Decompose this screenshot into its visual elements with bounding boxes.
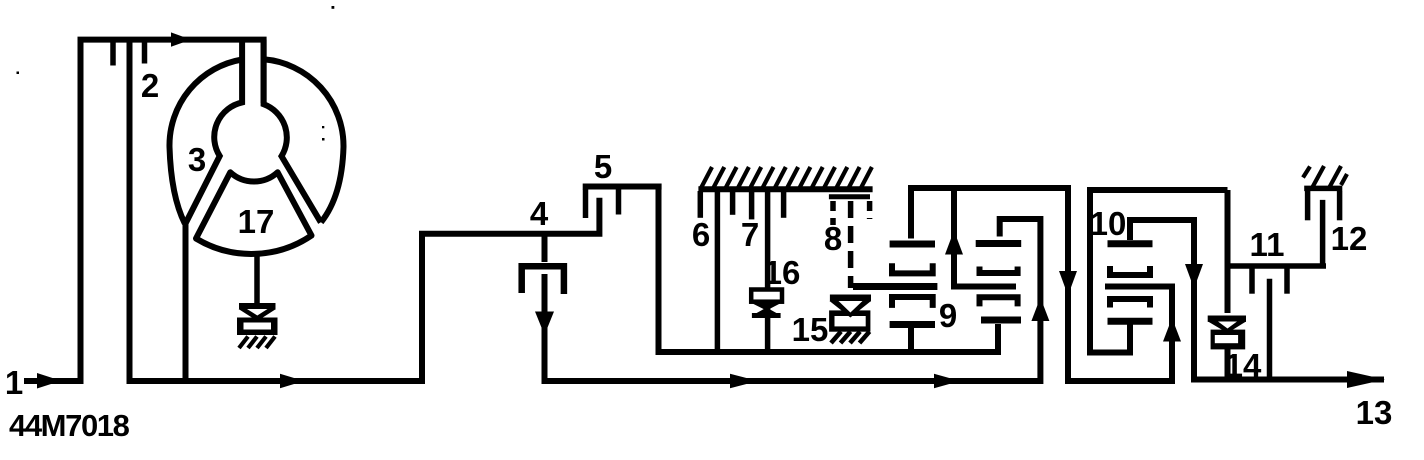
wire from 5 down and lube bus to clutch 9 (659, 189, 999, 352)
output arrowhead 13 (1347, 371, 1385, 388)
coupling 5 left tick (583, 189, 589, 218)
down arrowhead at 4 (535, 312, 554, 336)
svg-text:4: 4 (530, 195, 549, 232)
housing 12 hatching (1303, 166, 1347, 188)
stator shaft stem (254, 253, 260, 304)
torque converter housing 3 : outer shell left arc (169, 60, 242, 224)
svg-text:10: 10 (1090, 205, 1127, 242)
pump 4 stem (542, 234, 548, 262)
housing 12 tick a (1305, 191, 1311, 220)
clutch 10 upper hooked plate (1110, 266, 1150, 275)
arrowhead on feed line b (934, 374, 960, 388)
valve 14 stem from rail (1225, 190, 1231, 313)
wire rail to right clutch shaft with up arrow (954, 188, 1016, 287)
valve 14 stem to output line (1225, 348, 1231, 380)
dashed pilot tick right (867, 201, 873, 219)
grounded valve 15 (829, 298, 871, 343)
arrowhead on feed line a (730, 374, 758, 388)
wire return line 2: down, along bottom, up to coupling at 5 (130, 42, 600, 381)
tick 6b (730, 191, 736, 215)
dashed pilot tick left (830, 201, 836, 225)
clutch 9 left: lower hooked plate (892, 297, 933, 308)
arrowhead on top line (171, 32, 191, 46)
shaft bar from valve 15 to clutch 9 (853, 283, 937, 290)
clutch 9 right: lower hooked plate (980, 297, 1018, 306)
dashed pilot line to valve 15 (848, 201, 854, 288)
clutch 10 lower hooked plate (1110, 299, 1150, 308)
svg-text:2: 2 (141, 67, 159, 104)
svg-text:15: 15 (792, 311, 829, 348)
one-way clutch to ground under converter (237, 306, 278, 348)
torque converter housing 3 : outer shell right arc (264, 59, 344, 222)
clutch 9 left: top plate (890, 241, 935, 248)
coupling bracket 5 bar (583, 184, 662, 190)
up arrowhead to clutch 10 shaft (1163, 318, 1181, 342)
tick 7b (781, 191, 787, 218)
svg-text:11: 11 (1250, 226, 1285, 263)
svg-text:9: 9 (939, 297, 957, 334)
svg-text:14: 14 (1225, 347, 1262, 384)
down arrowhead on rail end (1059, 271, 1077, 296)
clutch 10 inner feed and output line to 13 (1130, 220, 1384, 380)
wire ceiling to lube bus (715, 191, 721, 352)
wire ceiling through valve 16 to lube bus (765, 191, 771, 352)
svg-text:16: 16 (764, 254, 801, 291)
clutch 9 left: stem to lube bus (908, 328, 914, 352)
clutch 9 left: upper hooked plate (892, 263, 933, 273)
coupling 11 riser to housing 12 (1320, 200, 1326, 266)
stator fan 17 (196, 172, 312, 254)
fixed housing 12 bar (1304, 186, 1342, 192)
down arrowhead on 1194 (1185, 264, 1203, 289)
converter drain wire to bottom line (183, 222, 189, 381)
regulator valve 16 (751, 290, 782, 316)
arrowhead on inlet 1 (37, 373, 61, 389)
wire inlet 1 to top line to converter feed channel (24, 40, 264, 381)
fixed housing ceiling over 6 7 8 (698, 186, 872, 192)
up arrowhead into clutch bracket (1031, 298, 1049, 322)
tick coupling on top line 2 (142, 42, 148, 64)
svg-text:17: 17 (238, 203, 275, 240)
svg-text:5: 5 (594, 148, 612, 185)
tick coupling on top line (110, 42, 116, 66)
svg-text:12: 12 (1331, 220, 1368, 257)
clutch 10 top plate (1108, 240, 1153, 247)
clutch pack rail 9, down line, bottom U, up to clutch 10 shaft (911, 188, 1172, 381)
svg-text:3: 3 (188, 141, 206, 178)
svg-text:8: 8 (824, 220, 842, 257)
check valve 14 (1208, 319, 1246, 350)
arrowhead on bottom return line (280, 374, 304, 388)
pump 4 cup symbol (522, 266, 564, 294)
turbine inner circle with left skirt (186, 40, 243, 224)
pilot anchor bar 8 (829, 194, 870, 199)
clutch 9 left: bottom plate (890, 321, 935, 328)
ceiling hatching (701, 167, 872, 188)
turbine inner circle with right skirt (264, 40, 321, 223)
coupling 11 tick a (1249, 268, 1255, 294)
clutch 9 right: bottom plate (981, 317, 1021, 324)
housing 12 tick b (1337, 191, 1343, 220)
svg-text:7: 7 (741, 216, 759, 253)
coupling bracket 11 bar (1228, 263, 1326, 269)
svg-text:6: 6 (692, 216, 710, 253)
svg-text:44M7018: 44M7018 (9, 408, 130, 443)
clutch 10 bottom plate (1108, 318, 1153, 325)
coupling 11 tick b (1284, 268, 1290, 294)
up arrowhead on 954 (945, 231, 963, 255)
svg-text:13: 13 (1356, 394, 1393, 431)
clutch 10 outer frame (1090, 190, 1228, 353)
pump 4 outlet with down arrow, bottom feed line to clutch bracket (545, 219, 1041, 381)
tick 6a (698, 191, 704, 218)
coupling 5 middle tick (616, 189, 622, 215)
clutch 9 right: upper hooked plate (980, 267, 1018, 274)
output shaft wire from coupling 11 to output line (1267, 279, 1273, 380)
clutch 9 right: top plate (976, 240, 1022, 247)
svg-text:1: 1 (5, 364, 23, 401)
tick 7 (749, 191, 755, 219)
